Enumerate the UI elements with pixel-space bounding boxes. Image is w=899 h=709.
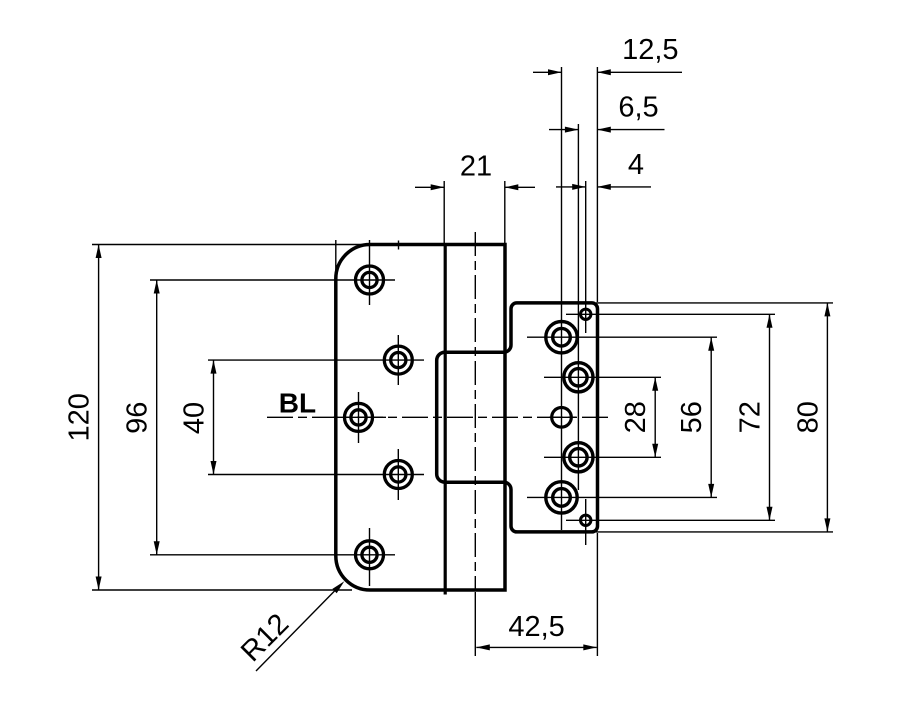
extension 40 top / upper mid hole arm [208,359,424,361]
dimension 80 [826,303,828,532]
left leaf hole lower mid [384,461,412,489]
extension 72 top / small hole arm [566,313,775,315]
svg-text:80: 80 [792,401,824,433]
pin axis extension to 42.5 dim [474,592,476,656]
dimension 96 [156,280,158,555]
extension 28 top / mid hole arm [544,376,661,378]
left leaf hole bottom [356,541,384,569]
dimension 6,5 [549,129,665,131]
R12 leader line [256,590,336,672]
left leaf hole upper mid [384,346,412,374]
extension 120 top [92,244,366,246]
extension 80 bottom [596,531,833,533]
hole center line top hole vertical [369,240,371,305]
dimension 28 [654,377,656,457]
dimension 120 [98,245,100,591]
right edge extension below leaf [596,533,598,656]
svg-text:120: 120 [64,393,96,441]
dimension 12,5 [533,71,682,73]
right edge extension above leaf [596,67,598,302]
dimension 56 [710,337,712,497]
thin lines group [92,67,833,656]
hole center line bottom hole vertical [369,528,371,586]
svg-text:12,5: 12,5 [622,34,678,66]
dimension 21 [415,186,535,188]
horizontal BL center line [267,416,612,418]
svg-text:40: 40 [179,402,211,434]
svg-text:56: 56 [676,401,708,433]
knuckle bend line [444,244,447,595]
dimension 42,5 [476,646,597,648]
right leaf mid hole top [564,363,593,392]
center hole horizontal arm solid [333,416,386,418]
svg-text:42,5: 42,5 [508,611,564,643]
right leaf center hole [552,408,572,428]
svg-text:6,5: 6,5 [618,92,658,124]
extension 72 bottom / small hole arm [566,519,775,521]
left leaf hole center [345,403,373,431]
svg-text:BL: BL [279,387,316,418]
right center hole horizontal arm solid [549,416,576,418]
dimension 72 [769,314,771,520]
svg-text:28: 28 [620,401,652,433]
svg-text:4: 4 [628,149,644,181]
right leaf mid hole bottom [564,443,593,472]
right leaf small hole bottom [581,515,591,525]
svg-text:R12: R12 [235,608,295,668]
extension 28 bottom / mid hole arm [544,456,661,458]
extension line 21 left [443,181,445,243]
top-left corner mark vertical [335,240,337,292]
top edge tick at x398 [398,241,400,250]
hole center line upper mid vertical [397,335,399,385]
extension 120 bottom [92,589,352,591]
small hole top column line [585,181,587,333]
extension 80 top [596,302,833,304]
dimension 40 [213,360,215,474]
right leaf small hole top [581,309,591,319]
left leaf hole top [356,266,384,294]
svg-text:96: 96 [122,402,154,434]
hole center line lower mid vertical [397,449,399,500]
extension line 21 right / barrel edge top [504,181,506,243]
extension 40 bottom / lower mid hole arm [208,474,424,476]
mid hole column line [577,124,579,490]
extension 56 top / big hole arm [527,336,717,338]
right leaf big hole top [546,322,577,353]
svg-text:72: 72 [734,401,766,433]
right leaf big hole bottom [546,482,577,513]
svg-text:21: 21 [460,151,492,183]
extension 56 bottom / big hole arm [527,496,717,498]
right leaf with middle knuckle outline [437,303,598,532]
left leaf outline [336,245,505,591]
extension 96 bottom / bottom hole arm [150,554,395,556]
hole center line center hole vertical [358,392,360,443]
small hole bottom column line [585,499,587,545]
hinge pin axis center line [474,232,476,589]
dimension 4 [556,186,651,188]
big hole column line [561,67,563,530]
extension 96 top / top hole arm [150,279,395,281]
